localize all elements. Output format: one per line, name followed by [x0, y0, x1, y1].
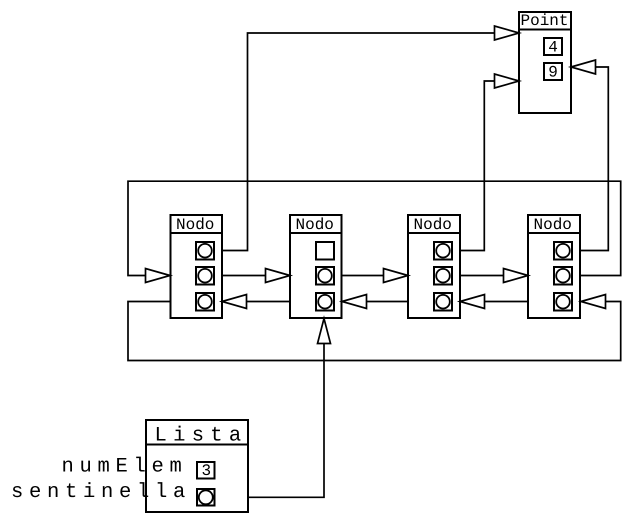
wire: Nodo4 data to Point — [571, 67, 608, 251]
wire: Nodo2 next to Nodo3 — [334, 275, 408, 277]
svg-text:Lista: Lista — [155, 425, 248, 448]
box Nodo2 (sentinel, empty data cell) — [290, 215, 342, 318]
cell sentinella pointer — [197, 489, 215, 506]
arrowhead into Point lower-left — [495, 74, 520, 88]
svg-text:4: 4 — [548, 39, 558, 57]
arrowhead into Nodo4 prev (wrap) — [581, 295, 606, 309]
svg-text:Nodo: Nodo — [534, 216, 572, 234]
arrowhead into Nodo3 next — [384, 269, 409, 283]
wire: prev wrap from Nodo1 to Nodo4 — [128, 302, 621, 361]
arrowhead into Nodo1 next — [146, 269, 171, 283]
cell numElem value 3 — [197, 462, 215, 479]
svg-text:Point: Point — [521, 12, 569, 30]
wire: Lista sentinella to Nodo2 — [214, 319, 324, 498]
svg-text:9: 9 — [548, 64, 558, 82]
box Lista — [146, 420, 248, 512]
wire: next wrap from Nodo4 to Nodo1 — [128, 181, 621, 275]
arrowhead into Point right — [571, 60, 596, 74]
arrowhead into Nodo3 prev — [460, 295, 485, 309]
cell 9 — [544, 63, 562, 80]
box Nodo4 — [528, 215, 580, 318]
wire: Nodo1 next to Nodo2 — [214, 275, 290, 277]
arrowhead into Nodo4 next — [504, 269, 529, 283]
wire: Nodo2 prev to Nodo1 — [222, 301, 316, 303]
wire: Nodo3 data to Point — [452, 81, 519, 251]
wire: Nodo1 data to Point — [214, 33, 519, 251]
svg-text:numElem: numElem — [62, 456, 188, 479]
arrowhead into Point top-left — [495, 26, 520, 40]
arrowhead into Nodo1 prev — [222, 295, 247, 309]
box Nodo1 — [171, 215, 223, 318]
cell 4 — [544, 38, 562, 55]
svg-text:Nodo: Nodo — [176, 216, 214, 234]
svg-text:3: 3 — [202, 462, 212, 480]
svg-text:Nodo: Nodo — [414, 216, 452, 234]
box Nodo3 — [408, 215, 460, 318]
svg-text:Nodo: Nodo — [296, 216, 334, 234]
svg-text:sentinella: sentinella — [11, 481, 191, 504]
box Point — [519, 12, 571, 113]
wire: Nodo3 next to Nodo4 — [452, 275, 528, 277]
wire: Nodo3 prev to Nodo2 — [342, 301, 434, 303]
wire: Nodo4 prev to Nodo3 — [460, 301, 554, 303]
arrowhead up into Nodo2 bottom — [318, 319, 331, 344]
arrowhead into Nodo2 prev — [342, 295, 367, 309]
arrowhead into Nodo2 next — [266, 269, 291, 283]
